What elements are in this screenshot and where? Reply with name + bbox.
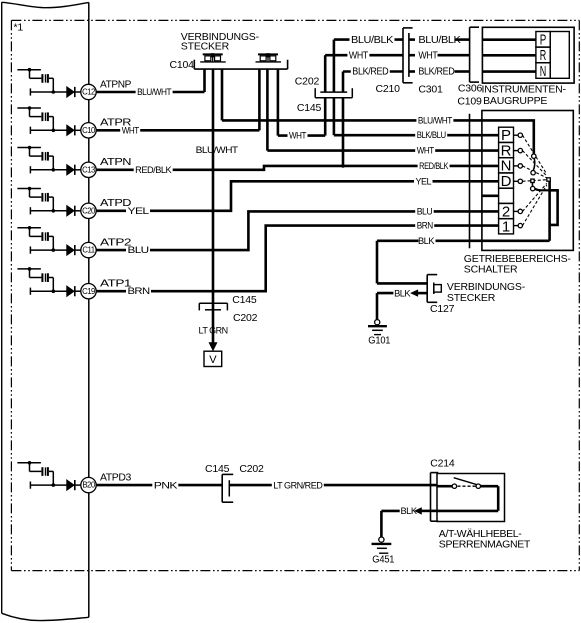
svg-text:C210: C210 bbox=[376, 83, 401, 95]
svg-text:BLK/RED: BLK/RED bbox=[352, 67, 388, 78]
svg-text:B20: B20 bbox=[82, 481, 96, 490]
svg-text:C202: C202 bbox=[239, 463, 264, 475]
svg-text:C19: C19 bbox=[82, 287, 95, 296]
svg-text:BLU: BLU bbox=[128, 245, 149, 255]
svg-text:ATPNP: ATPNP bbox=[100, 78, 131, 90]
svg-text:C214: C214 bbox=[430, 458, 455, 470]
svg-text:BLU/WHT: BLU/WHT bbox=[418, 116, 453, 126]
svg-text:C202: C202 bbox=[233, 312, 258, 324]
svg-text:WHT: WHT bbox=[417, 146, 435, 156]
svg-text:SPERRENMAGNET: SPERRENMAGNET bbox=[439, 538, 531, 550]
svg-text:LT GRN/RED: LT GRN/RED bbox=[273, 480, 323, 490]
svg-text:PNK: PNK bbox=[154, 480, 178, 490]
svg-text:C145: C145 bbox=[297, 102, 322, 114]
svg-text:V: V bbox=[209, 354, 217, 366]
svg-text:G451: G451 bbox=[372, 555, 395, 566]
svg-text:C13: C13 bbox=[82, 165, 95, 174]
svg-text:C12: C12 bbox=[82, 88, 95, 97]
svg-text:YEL: YEL bbox=[128, 206, 150, 216]
svg-text:*1: *1 bbox=[14, 22, 24, 34]
svg-text:C11: C11 bbox=[82, 246, 94, 255]
svg-text:C104: C104 bbox=[170, 59, 195, 71]
svg-text:C127: C127 bbox=[430, 303, 455, 315]
svg-text:BLU/WHT: BLU/WHT bbox=[196, 145, 239, 155]
svg-text:BLK/BLU: BLK/BLU bbox=[417, 130, 446, 140]
svg-text:P: P bbox=[540, 32, 547, 49]
svg-text:ATPD3: ATPD3 bbox=[100, 472, 132, 484]
svg-text:N: N bbox=[540, 63, 547, 80]
svg-text:BLK: BLK bbox=[394, 288, 411, 298]
svg-text:WHT: WHT bbox=[349, 50, 368, 61]
svg-text:BRN: BRN bbox=[128, 286, 150, 296]
svg-text:C145: C145 bbox=[205, 463, 230, 475]
svg-text:D: D bbox=[501, 173, 512, 190]
svg-text:1: 1 bbox=[502, 219, 510, 236]
svg-text:RED/BLK: RED/BLK bbox=[135, 165, 172, 175]
svg-text:C145: C145 bbox=[232, 294, 257, 306]
svg-text:RED/BLK: RED/BLK bbox=[419, 161, 448, 171]
svg-text:ATPN: ATPN bbox=[100, 156, 131, 168]
svg-text:BLK/RED: BLK/RED bbox=[418, 67, 454, 78]
svg-text:SCHALTER: SCHALTER bbox=[464, 264, 518, 276]
svg-text:WHT: WHT bbox=[418, 50, 437, 61]
svg-text:BLK: BLK bbox=[418, 236, 435, 246]
svg-text:BLU: BLU bbox=[417, 206, 433, 216]
svg-text:BLU/WHT: BLU/WHT bbox=[137, 87, 172, 97]
svg-text:C202: C202 bbox=[295, 76, 320, 88]
svg-text:STECKER: STECKER bbox=[181, 40, 230, 52]
svg-text:R: R bbox=[540, 47, 547, 64]
svg-text:BLK: BLK bbox=[401, 506, 418, 516]
svg-text:INSTRUMENTEN-: INSTRUMENTEN- bbox=[482, 84, 567, 96]
svg-text:WHT: WHT bbox=[289, 131, 307, 141]
svg-text:BLU/BLK: BLU/BLK bbox=[351, 35, 394, 46]
svg-text:G101: G101 bbox=[368, 336, 391, 347]
svg-text:BRN: BRN bbox=[417, 221, 433, 231]
svg-text:WHT: WHT bbox=[122, 125, 140, 135]
svg-text:C109: C109 bbox=[457, 96, 482, 108]
svg-text:C301: C301 bbox=[418, 83, 443, 95]
svg-text:YEL: YEL bbox=[416, 176, 432, 186]
svg-text:BAUGRUPPE: BAUGRUPPE bbox=[483, 95, 547, 107]
svg-text:C10: C10 bbox=[82, 126, 96, 135]
svg-text:C20: C20 bbox=[82, 206, 96, 215]
svg-text:C306: C306 bbox=[458, 83, 483, 95]
